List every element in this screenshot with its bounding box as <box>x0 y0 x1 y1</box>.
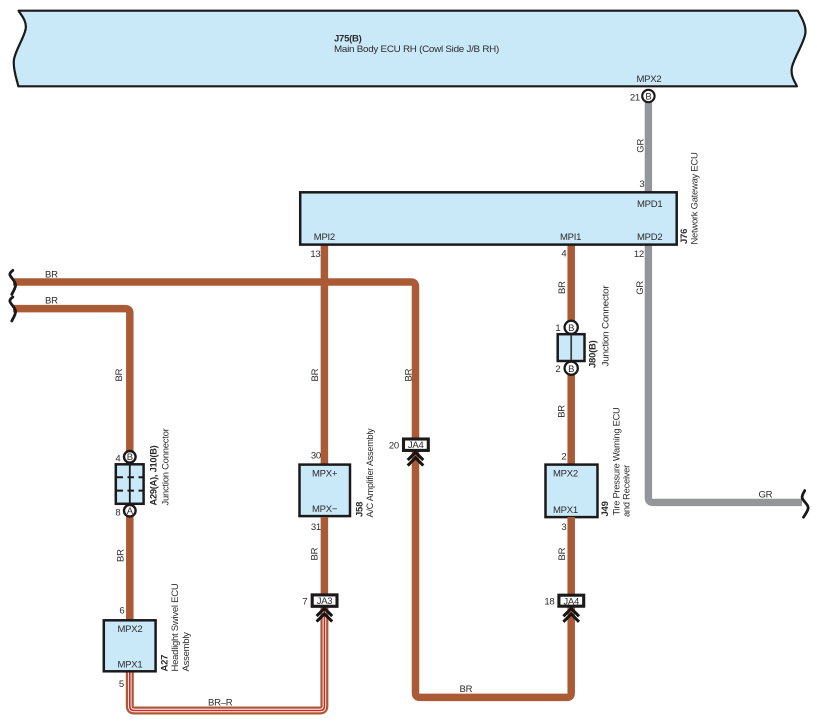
svg-text:21: 21 <box>630 92 640 103</box>
svg-text:MPX2: MPX2 <box>553 468 578 479</box>
svg-text:3: 3 <box>639 179 644 190</box>
svg-text:4: 4 <box>561 248 566 259</box>
svg-text:J49: J49 <box>600 501 611 516</box>
connector circle B (J80 pin 1) <box>565 321 578 334</box>
svg-text:A29(A), J10(B): A29(A), J10(B) <box>149 445 160 505</box>
svg-text:MPX1: MPX1 <box>118 659 143 670</box>
wire BR-R from A27 pin 5 to JA3 <box>130 607 325 711</box>
svg-text:18: 18 <box>544 597 554 608</box>
svg-text:J80(B): J80(B) <box>588 340 599 368</box>
svg-text:13: 13 <box>310 249 320 260</box>
connector circle B (J75 pin 21) <box>642 90 654 102</box>
wire BR from J76 MPI2 down to J58 <box>321 244 329 465</box>
svg-text:BR: BR <box>116 549 127 562</box>
connector JA4 (pin 18) <box>559 595 584 606</box>
svg-text:BR: BR <box>310 368 321 381</box>
svg-text:J76: J76 <box>679 229 690 244</box>
svg-text:MPD1: MPD1 <box>637 199 662 210</box>
svg-text:BR: BR <box>310 547 321 560</box>
svg-text:3: 3 <box>561 522 566 533</box>
connector JA3 <box>312 595 337 606</box>
JA4(18) arrow chevrons <box>563 609 579 617</box>
wire GR from J76 MPD2 to right edge <box>648 244 802 502</box>
connector JA4 (pin 20) <box>404 439 429 450</box>
svg-text:JA4: JA4 <box>408 440 424 451</box>
JA4(20) arrow chevrons <box>408 452 424 460</box>
svg-text:MPX+: MPX+ <box>312 468 338 479</box>
svg-text:GR: GR <box>759 490 773 501</box>
svg-text:and Receiver: and Receiver <box>622 465 633 517</box>
svg-text:J75(B): J75(B) <box>334 34 362 45</box>
svg-text:A/C Amplifier Assembly: A/C Amplifier Assembly <box>365 428 376 517</box>
svg-text:BR: BR <box>45 270 58 281</box>
svg-text:BR: BR <box>460 684 473 695</box>
svg-text:MPX2: MPX2 <box>637 74 662 85</box>
svg-text:Junction Connector: Junction Connector <box>600 285 611 366</box>
svg-text:7: 7 <box>302 597 307 608</box>
junction block J75(B) banner <box>14 11 806 87</box>
wire BR horizontal 2 to A29 and down to A27 <box>13 309 130 621</box>
wire BR from J76 MPI1 down to J49 <box>567 244 575 465</box>
svg-text:MPX1: MPX1 <box>553 505 578 516</box>
ECU box J58 A/C Amplifier Assembly <box>300 465 351 516</box>
svg-text:2: 2 <box>561 452 566 463</box>
svg-text:Headlight Swivel ECU: Headlight Swivel ECU <box>170 583 181 671</box>
svg-text:BR–R: BR–R <box>208 697 233 708</box>
A29 divider vertical <box>129 465 131 503</box>
svg-text:J58: J58 <box>355 502 366 517</box>
wire through J80 covered by box <box>558 334 585 361</box>
svg-text:B: B <box>127 452 133 463</box>
svg-text:8: 8 <box>115 508 120 519</box>
A29 divider dashed row 1 <box>117 476 144 478</box>
ECU box J49 Tire Pressure Warning ECU <box>546 465 598 517</box>
JA3 arrow chevrons <box>317 608 333 616</box>
svg-text:A27: A27 <box>159 655 170 672</box>
svg-text:BR: BR <box>557 405 568 418</box>
wire BR J49 to JA4(18) then bottom run to JA4(20) <box>416 452 572 697</box>
svg-text:2: 2 <box>555 364 560 375</box>
svg-text:MPI1: MPI1 <box>560 232 581 243</box>
svg-text:5: 5 <box>119 679 124 690</box>
J80 divider <box>570 335 572 360</box>
svg-text:JA3: JA3 <box>317 596 333 607</box>
torn end of BR wire 2 <box>10 297 16 321</box>
svg-text:BR: BR <box>557 547 568 560</box>
torn end of BR wire 1 <box>10 270 16 294</box>
svg-text:GR: GR <box>636 139 647 153</box>
torn end of GR wire <box>802 491 808 518</box>
svg-text:31: 31 <box>311 522 321 533</box>
svg-text:MPX2: MPX2 <box>118 624 143 635</box>
svg-text:B: B <box>568 323 574 334</box>
svg-text:BR: BR <box>557 281 568 294</box>
svg-text:Network Gateway ECU: Network Gateway ECU <box>690 152 701 244</box>
svg-text:Junction Connector: Junction Connector <box>160 428 171 505</box>
svg-text:Assembly: Assembly <box>181 632 192 672</box>
connector circle B (J80 pin 2) <box>565 362 578 375</box>
A29 divider dashed row 2 <box>117 490 144 492</box>
svg-text:BR: BR <box>114 368 125 381</box>
svg-text:B: B <box>645 92 651 103</box>
svg-text:MPX−: MPX− <box>312 504 338 515</box>
ECU box A27 Headlight Swivel ECU Assembly <box>104 620 156 671</box>
wire BR horizontal top-left to JA4 <box>13 282 416 439</box>
svg-text:6: 6 <box>119 605 124 616</box>
svg-text:4: 4 <box>115 453 120 464</box>
svg-text:20: 20 <box>389 441 399 452</box>
wire GR from J75 pin 21 to J76 MPD1 <box>645 96 652 192</box>
svg-text:12: 12 <box>634 249 644 260</box>
connector circle B (A29 pin 4) <box>124 451 136 463</box>
connector circle A (A29 pin 8) <box>124 505 136 517</box>
svg-text:BR: BR <box>404 368 415 381</box>
svg-text:Main Body ECU RH (Cowl Side J/: Main Body ECU RH (Cowl Side J/B RH) <box>334 44 499 55</box>
ECU box J76 Network Gateway ECU <box>300 192 677 244</box>
svg-text:1: 1 <box>555 323 560 334</box>
junction connector A29(A),J10(B) <box>116 464 144 504</box>
svg-text:A: A <box>127 506 134 517</box>
svg-text:GR: GR <box>635 281 646 295</box>
svg-text:BR: BR <box>45 296 58 307</box>
svg-text:MPI2: MPI2 <box>314 232 335 243</box>
svg-text:30: 30 <box>311 451 321 462</box>
svg-text:MPD2: MPD2 <box>637 232 662 243</box>
svg-text:B: B <box>568 364 574 375</box>
svg-text:JA4: JA4 <box>563 596 579 607</box>
wire BR J58 to JA3 <box>321 517 329 595</box>
